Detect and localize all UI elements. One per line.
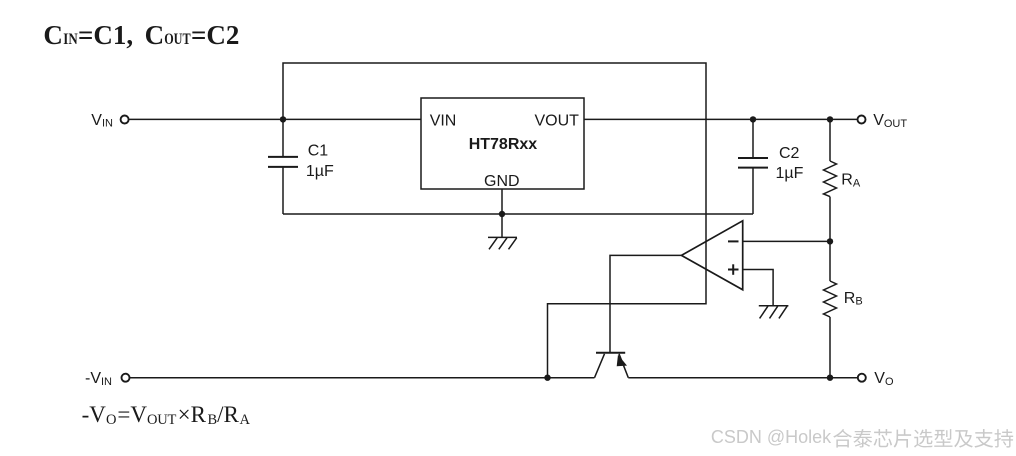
svg-text:VIN: VIN [430, 112, 457, 129]
svg-text:CSDN @Holek: CSDN @Holek [711, 427, 832, 447]
node: feedback to rail junction [544, 375, 550, 381]
node: GND junction [499, 211, 505, 217]
wire: VIN input line from terminal to regulator [129, 118, 421, 120]
wire: VOUT line from regulator to output terminal [584, 118, 857, 120]
transistor Q1 [595, 353, 629, 378]
node: VIN junction [280, 116, 286, 122]
wire: non-inverting input to ground [743, 270, 773, 306]
svg-text:VO: VO [874, 370, 894, 388]
wire: C1 bottom stub [282, 167, 284, 214]
ground symbol at op-amp non-inverting input [759, 306, 789, 319]
wire: C1 top stub [282, 119, 284, 156]
node: VOUT junction [827, 116, 833, 122]
node: C2 top junction [750, 116, 756, 122]
label RA [841, 172, 861, 190]
label U1 pin GND [484, 173, 520, 190]
svg-text:CIN=C1,COUT=C2: CIN=C1,COUT=C2 [43, 20, 239, 50]
regulator U1 HT78Rxx box [421, 98, 584, 189]
capacitor C2 [738, 158, 768, 168]
resistor RB [824, 281, 837, 317]
svg-text:1µF: 1µF [776, 165, 804, 182]
wire: C2 bottom stub [752, 168, 754, 214]
label output formula -VO=VOUT*RB/RA [82, 402, 251, 428]
svg-text:C2: C2 [779, 145, 800, 162]
label C2 value [776, 145, 804, 182]
wire: GND pin stub [501, 189, 503, 237]
label VIN terminal [91, 112, 113, 130]
wire: ground return line [283, 213, 753, 215]
svg-text:VIN: VIN [91, 112, 113, 130]
op-amp U2 [681, 221, 742, 290]
wire: negative input rail (left section) [130, 377, 595, 379]
terminal: VO [858, 374, 866, 382]
label U1 pin VOUT [535, 112, 580, 129]
wire: op-amp output to transistor base [610, 255, 681, 352]
terminal: VOUT [858, 116, 866, 124]
svg-text:-VIN: -VIN [85, 370, 112, 388]
wire: feedback loop from VIN node over the top to op-amp area [283, 63, 706, 378]
wire: RB bottom stub [829, 317, 831, 378]
label U1 part number HT78Rxx [469, 136, 538, 153]
node: VO junction [827, 375, 833, 381]
svg-text:VOUT: VOUT [873, 112, 907, 130]
label VO terminal [874, 370, 894, 388]
svg-text:VOUT: VOUT [535, 112, 580, 129]
svg-text:HT78Rxx: HT78Rxx [469, 136, 538, 153]
terminal: VIN [121, 116, 129, 124]
ground symbol at GND pin [488, 237, 517, 249]
wire: RB top stub [829, 241, 831, 281]
label U1 pin VIN [430, 112, 457, 129]
svg-text:C1: C1 [308, 142, 329, 159]
wire: C2 top stub [752, 119, 754, 158]
node: inverting input junction [827, 238, 833, 244]
svg-text:RB: RB [844, 290, 863, 308]
label header formula CIN=C1, COUT=C2 [43, 20, 239, 50]
label -VIN terminal [85, 370, 112, 388]
svg-text:RA: RA [841, 172, 861, 190]
watermark CSDN @Holek Chinese [711, 427, 1013, 448]
label C1 value [306, 142, 334, 180]
wire: RA bottom stub to inverting node [829, 197, 831, 242]
label RB [844, 290, 863, 308]
capacitor C1 [268, 157, 298, 167]
resistor RA [824, 161, 837, 197]
svg-text:-VO=VOUT×RB/RA: -VO=VOUT×RB/RA [82, 402, 251, 428]
terminal: -VIN [122, 374, 130, 382]
wire: inverting input line [743, 240, 830, 242]
wire: RA top stub [829, 119, 831, 161]
wire: negative output rail (right section) [628, 377, 857, 379]
svg-text:GND: GND [484, 173, 520, 190]
label VOUT terminal [873, 112, 907, 130]
svg-text:1µF: 1µF [306, 163, 334, 180]
